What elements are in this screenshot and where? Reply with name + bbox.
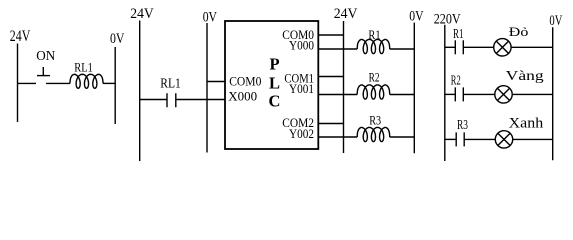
- svg-text:R2: R2: [369, 71, 380, 85]
- svg-text:RL1: RL1: [74, 60, 93, 75]
- svg-text:R1: R1: [453, 27, 463, 42]
- svg-text:Vàng: Vàng: [506, 69, 544, 84]
- svg-text:R2: R2: [451, 73, 461, 88]
- svg-text:R3: R3: [369, 114, 381, 128]
- svg-text:220V: 220V: [434, 12, 461, 28]
- svg-text:0V: 0V: [549, 13, 562, 29]
- svg-text:24V: 24V: [334, 6, 358, 22]
- svg-text:COM0: COM0: [229, 73, 261, 88]
- svg-text:P: P: [269, 54, 279, 73]
- svg-text:Xanh: Xanh: [509, 115, 544, 131]
- svg-text:Y002: Y002: [289, 126, 314, 141]
- svg-text:Y000: Y000: [289, 38, 314, 53]
- svg-text:RL1: RL1: [160, 76, 181, 91]
- svg-text:R1: R1: [368, 28, 380, 42]
- svg-text:0V: 0V: [203, 9, 217, 25]
- svg-text:0V: 0V: [409, 9, 423, 25]
- svg-text:R3: R3: [457, 118, 468, 133]
- svg-text:24V: 24V: [10, 28, 31, 45]
- svg-text:L: L: [269, 73, 280, 92]
- svg-text:X000: X000: [228, 88, 257, 103]
- svg-text:Đỏ: Đỏ: [509, 25, 529, 39]
- svg-text:ON: ON: [36, 49, 55, 64]
- svg-text:24V: 24V: [130, 6, 154, 22]
- svg-text:Y001: Y001: [289, 81, 314, 96]
- svg-text:C: C: [269, 91, 281, 110]
- svg-text:0V: 0V: [110, 31, 125, 47]
